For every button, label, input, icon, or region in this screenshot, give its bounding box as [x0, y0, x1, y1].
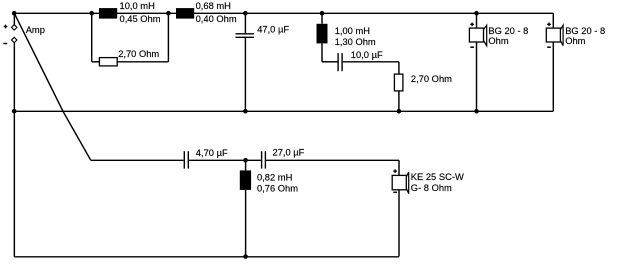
junction node L3 top	[320, 11, 325, 16]
wire left vertical from minus terminal to bottom rail	[13, 43, 15, 257]
svg-text:1,00 mH: 1,00 mH	[335, 26, 370, 36]
speaker SP1 cone	[484, 25, 487, 46]
speaker SP1 BG 20 box	[469, 28, 483, 42]
junction node speaker1 bottom	[474, 109, 479, 114]
junction node speaker1 top	[474, 11, 479, 16]
wire mid rail (negative bus)	[14, 110, 553, 112]
resistor R2 2,70 Ohm	[394, 74, 403, 91]
svg-text:0,40 Ohm: 0,40 Ohm	[196, 14, 237, 24]
inductor L1 10,0 mH	[99, 8, 117, 19]
wire speaker2 top	[552, 13, 554, 28]
speaker SP2 plus	[547, 23, 551, 27]
wire plus terminal to top rail	[13, 13, 15, 24]
svg-text:BG 20 - 8: BG 20 - 8	[565, 26, 605, 36]
capacitor C4 27,0 uF	[262, 151, 266, 168]
resistor R1 2,70 Ohm	[99, 58, 117, 66]
wire R1 branch right vertical	[167, 13, 169, 62]
wire speaker1 bottom	[476, 42, 478, 111]
wire R2 to mid rail	[398, 91, 400, 111]
svg-text:G- 8 Ohm: G- 8 Ohm	[411, 183, 452, 193]
junction node L1 right	[166, 11, 171, 16]
speaker SP3 KE 25 box	[392, 175, 406, 189]
capacitor C3 4,70 uF	[184, 151, 188, 168]
speaker SP2 minus	[547, 46, 551, 48]
svg-text:2,70 Ohm: 2,70 Ohm	[411, 74, 452, 84]
speaker SP3 plus	[393, 169, 397, 173]
svg-text:Ohm: Ohm	[565, 36, 585, 46]
junction node mid rail left	[12, 109, 17, 114]
wire to C2 left bar	[322, 61, 338, 63]
speaker SP1 plus	[470, 23, 474, 27]
wire tweeter branch horizontal	[91, 159, 184, 161]
junction node C1 bottom	[243, 109, 248, 114]
svg-text:47,0 µF: 47,0 µF	[257, 25, 289, 35]
wire bottom rail	[14, 256, 399, 258]
svg-text:0,45 Ohm: 0,45 Ohm	[120, 14, 161, 24]
wire C4 to tweeter	[266, 159, 399, 161]
inductor L4 0,82 mH	[240, 170, 251, 190]
junction node C1 top	[243, 11, 248, 16]
wire R1 branch left horizontal	[92, 61, 100, 63]
junction node L4 top	[243, 158, 248, 163]
wire C1 top	[244, 13, 246, 33]
wire R1 branch right horizontal	[117, 61, 168, 63]
svg-text:0,76 Ohm: 0,76 Ohm	[257, 183, 298, 193]
junction node top-left	[12, 11, 17, 16]
wire speaker1 top	[476, 13, 478, 28]
wire diagonal from top node to tweeter branch	[14, 13, 90, 160]
svg-text:10,0 mH: 10,0 mH	[120, 1, 155, 11]
svg-text:0,68 mH: 0,68 mH	[196, 1, 231, 11]
source minus sign	[3, 43, 7, 45]
speaker SP3 cone	[406, 172, 408, 194]
capacitor C2 10,0 uF	[338, 53, 342, 71]
speaker SP3 minus	[393, 191, 397, 193]
wire down to R2	[398, 62, 400, 74]
wire tweeter box to bottom rail	[398, 190, 400, 257]
wire top rail	[14, 12, 553, 14]
svg-text:10,0 µF: 10,0 µF	[351, 50, 383, 60]
junction node L4 bottom rail	[243, 254, 248, 259]
wire C2 to R2	[343, 61, 399, 63]
wire R1 branch left vertical	[91, 13, 93, 62]
wire L4 top	[245, 160, 247, 170]
junction node L1 left	[89, 11, 94, 16]
wire L3 top	[321, 13, 323, 24]
svg-text:27,0 µF: 27,0 µF	[273, 148, 305, 158]
svg-text:Ohm: Ohm	[488, 36, 508, 46]
speaker SP1 minus	[470, 46, 474, 48]
source plus sign	[4, 25, 8, 29]
source minus terminal diamond	[12, 37, 17, 42]
capacitor C1 47,0 uF	[236, 34, 255, 38]
inductor L3 1,00 mH	[317, 24, 328, 44]
wire between C3 and C4	[189, 159, 261, 161]
speaker SP2 cone	[560, 25, 563, 45]
wire C1 bottom	[244, 38, 246, 111]
svg-text:2,70 Ohm: 2,70 Ohm	[118, 49, 159, 59]
svg-text:1,30 Ohm: 1,30 Ohm	[335, 37, 376, 47]
svg-text:4,70 µF: 4,70 µF	[196, 148, 228, 158]
svg-text:BG 20 - 8: BG 20 - 8	[488, 26, 528, 36]
source plus terminal diamond	[12, 25, 17, 30]
svg-text:0,82 mH: 0,82 mH	[257, 173, 292, 183]
speaker SP2 BG 20 box	[546, 28, 560, 42]
svg-text:KE 25 SC-W: KE 25 SC-W	[411, 172, 464, 182]
inductor L2 0,68 mH	[176, 8, 194, 19]
svg-text:Amp: Amp	[26, 25, 45, 35]
wire L4 to bottom rail	[245, 190, 247, 257]
junction node R2 bottom	[397, 109, 402, 114]
wire speaker2 bottom	[552, 42, 554, 111]
wire down to tweeter box	[398, 160, 400, 175]
wire L3 to C2 corner	[321, 43, 323, 61]
